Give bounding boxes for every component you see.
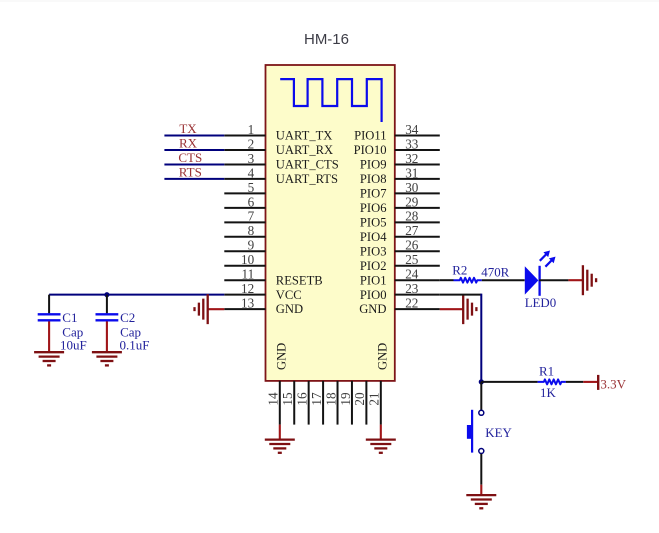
- switch KEY: [467, 410, 484, 454]
- svg-text:5: 5: [248, 180, 255, 195]
- svg-text:UART_RX: UART_RX: [276, 143, 333, 157]
- pin 15 stub: [293, 381, 295, 425]
- svg-text:13: 13: [241, 296, 255, 311]
- pin 30 stub: [395, 192, 440, 194]
- svg-text:R2: R2: [452, 264, 467, 278]
- wire pin23 vertical: [480, 294, 482, 382]
- wire VCC net: [49, 294, 224, 296]
- svg-text:RTS: RTS: [179, 165, 202, 180]
- svg-text:GND: GND: [275, 343, 289, 370]
- svg-text:UART_TX: UART_TX: [276, 129, 333, 143]
- pin 18 stub: [337, 381, 339, 425]
- svg-text:PIO4: PIO4: [360, 230, 387, 244]
- svg-text:12: 12: [241, 281, 254, 296]
- wire net RX: [164, 149, 224, 151]
- svg-text:23: 23: [405, 281, 419, 296]
- C1 labels: [60, 310, 87, 353]
- svg-text:19: 19: [338, 392, 353, 406]
- pin 1 stub: [224, 135, 265, 137]
- svg-text:24: 24: [405, 267, 419, 282]
- svg-text:GND: GND: [376, 343, 390, 370]
- wire junction to key: [480, 382, 482, 410]
- svg-text:17: 17: [309, 392, 324, 406]
- svg-text:RX: RX: [179, 136, 198, 151]
- svg-text:PIO8: PIO8: [360, 172, 387, 186]
- pin 6 stub: [224, 207, 265, 209]
- pin 13 stub: [224, 308, 265, 310]
- junction node at C2: [104, 292, 109, 297]
- pin 12 stub: [224, 294, 265, 296]
- ground at pin 22 stem: [440, 308, 463, 310]
- ground right of LED: [583, 265, 596, 295]
- svg-text:PIO5: PIO5: [360, 215, 387, 229]
- svg-text:3.3V: 3.3V: [600, 377, 626, 392]
- wire R1 to power: [566, 381, 583, 383]
- pin 24 stub: [395, 279, 440, 281]
- svg-text:32: 32: [405, 151, 418, 166]
- IC U1 HM-16 body: [266, 65, 395, 381]
- power bar 3.3V: [583, 375, 598, 390]
- svg-text:10uF: 10uF: [60, 338, 87, 353]
- pin 7 stub: [224, 221, 265, 223]
- svg-text:GND: GND: [359, 302, 386, 316]
- svg-text:28: 28: [405, 209, 419, 224]
- pin 5 stub: [224, 192, 265, 194]
- svg-text:18: 18: [323, 392, 338, 406]
- wire pin24 to R2: [440, 279, 454, 281]
- pin 10 stub: [224, 265, 265, 267]
- pin 9 stub: [224, 250, 265, 252]
- resistor R2: [454, 278, 482, 283]
- pin 4 stub: [224, 178, 265, 180]
- svg-text:PIO6: PIO6: [360, 201, 387, 215]
- ground stem bottom: [279, 425, 281, 440]
- svg-text:PIO2: PIO2: [360, 259, 387, 273]
- pin 22 stub: [395, 308, 440, 310]
- svg-text:PIO11: PIO11: [354, 129, 386, 143]
- pin 23 stub: [395, 294, 440, 296]
- LED arrows: [540, 251, 556, 267]
- svg-text:470R: 470R: [481, 266, 509, 280]
- capacitor C1: [38, 295, 61, 353]
- svg-text:GND: GND: [276, 302, 303, 316]
- svg-text:RESETB: RESETB: [276, 273, 323, 287]
- ground right of LED stem: [568, 279, 583, 281]
- pin 14 stub: [279, 381, 281, 425]
- wire key to ground: [480, 454, 482, 485]
- svg-text:1K: 1K: [540, 386, 556, 400]
- ground under C1: [34, 352, 64, 365]
- svg-text:30: 30: [405, 180, 419, 195]
- svg-text:C2: C2: [120, 310, 135, 325]
- ground under C2: [92, 352, 122, 365]
- LED LED0: [525, 266, 540, 296]
- pin 21 stub: [380, 381, 382, 425]
- wire net CTS: [164, 163, 224, 165]
- svg-text:PIO0: PIO0: [360, 288, 387, 302]
- svg-text:PIO1: PIO1: [360, 273, 387, 287]
- ground symbol bottom: [366, 440, 396, 453]
- pin 20 stub: [365, 381, 367, 425]
- svg-text:UART_RTS: UART_RTS: [276, 172, 338, 186]
- svg-text:27: 27: [405, 223, 419, 238]
- pin 2 stub: [224, 149, 265, 151]
- svg-text:26: 26: [405, 238, 419, 253]
- svg-text:34: 34: [405, 122, 419, 137]
- pin 29 stub: [395, 207, 440, 209]
- pin 31 stub: [395, 178, 440, 180]
- svg-text:25: 25: [405, 252, 419, 267]
- pin 32 stub: [395, 163, 440, 165]
- svg-text:14: 14: [266, 392, 281, 406]
- svg-text:11: 11: [241, 267, 254, 282]
- ground at pin 13: [195, 294, 208, 324]
- pin 17 stub: [322, 381, 324, 425]
- svg-text:LED0: LED0: [525, 296, 557, 310]
- ground at pin 22: [463, 294, 476, 324]
- svg-text:TX: TX: [179, 121, 197, 136]
- wire LED to ground: [539, 279, 568, 281]
- svg-text:CTS: CTS: [178, 150, 202, 165]
- svg-text:1: 1: [248, 122, 255, 137]
- resistor R1: [538, 379, 566, 384]
- svg-text:6: 6: [248, 194, 255, 209]
- svg-text:KEY: KEY: [485, 426, 512, 440]
- svg-text:15: 15: [280, 392, 295, 406]
- svg-text:VCC: VCC: [276, 288, 302, 302]
- svg-text:9: 9: [248, 238, 255, 253]
- antenna meander: [280, 79, 381, 122]
- wire net TX: [164, 135, 224, 137]
- svg-text:PIO3: PIO3: [360, 244, 387, 258]
- ground at pin 13 stem: [208, 308, 225, 310]
- svg-text:10: 10: [241, 252, 255, 267]
- pin 3 stub: [224, 163, 265, 165]
- svg-text:22: 22: [405, 296, 418, 311]
- pin 28 stub: [395, 221, 440, 223]
- svg-text:7: 7: [248, 209, 255, 224]
- pin 19 stub: [351, 381, 353, 425]
- svg-text:C1: C1: [62, 310, 77, 325]
- svg-text:0.1uF: 0.1uF: [120, 338, 150, 353]
- svg-text:8: 8: [248, 223, 255, 238]
- svg-text:31: 31: [405, 165, 418, 180]
- svg-text:R1: R1: [539, 365, 554, 379]
- svg-text:16: 16: [295, 392, 310, 406]
- ground under key: [466, 495, 496, 508]
- wire R2 to LED: [482, 279, 525, 281]
- ground stem bottom: [380, 425, 382, 440]
- C2 labels: [120, 310, 150, 353]
- svg-text:UART_CTS: UART_CTS: [276, 158, 339, 172]
- ground under key stem: [480, 485, 482, 495]
- pin 8 stub: [224, 236, 265, 238]
- pin 27 stub: [395, 236, 440, 238]
- svg-text:HM-16: HM-16: [304, 31, 349, 48]
- svg-text:4: 4: [248, 165, 255, 180]
- svg-text:PIO10: PIO10: [354, 143, 387, 157]
- svg-text:3: 3: [248, 151, 255, 166]
- pin 25 stub: [395, 265, 440, 267]
- pin 34 stub: [395, 135, 440, 137]
- wire junction to R1: [481, 381, 537, 383]
- wire pin23 horizontal: [440, 294, 482, 296]
- wire net RTS: [164, 178, 224, 180]
- svg-text:PIO9: PIO9: [360, 158, 387, 172]
- pin 16 stub: [308, 381, 310, 425]
- ground symbol bottom: [265, 440, 295, 453]
- svg-text:2: 2: [248, 136, 255, 151]
- svg-text:33: 33: [405, 136, 419, 151]
- capacitor C2: [96, 295, 119, 353]
- pin 11 stub: [224, 279, 265, 281]
- pin 33 stub: [395, 149, 440, 151]
- pin 26 stub: [395, 250, 440, 252]
- svg-text:29: 29: [405, 194, 419, 209]
- junction node key/R1: [479, 379, 484, 384]
- svg-text:21: 21: [367, 392, 382, 405]
- svg-text:20: 20: [352, 392, 367, 406]
- svg-text:PIO7: PIO7: [360, 186, 387, 200]
